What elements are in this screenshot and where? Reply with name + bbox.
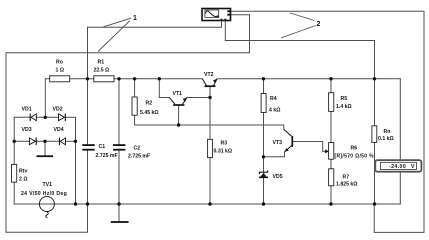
wire scope probe to rail	[88, 21, 222, 79]
wire scope channel B to output node	[225, 21, 374, 79]
wire top edge node1 frame	[6, 15, 250, 233]
resistor R7	[329, 169, 358, 188]
node 2 callout line b	[281, 26, 316, 39]
junction rail / R5 top	[329, 77, 332, 80]
resistor R2	[132, 97, 159, 116]
diode VD2	[53, 107, 66, 122]
wire bridge top row mid	[36, 116, 58, 118]
wire bridge top row right	[65, 116, 75, 118]
resistor R5	[329, 93, 352, 112]
junction bottom rail / ground	[117, 202, 120, 205]
zener diode VD5	[259, 170, 283, 180]
junction bridge right / VD4	[74, 140, 77, 143]
wire R3 bottom	[209, 158, 211, 204]
svg-text:[R]/570 Ω/50 %: [R]/570 Ω/50 %	[335, 154, 375, 160]
svg-text:VT1: VT1	[173, 91, 183, 97]
wire bridge left rail	[13, 117, 15, 164]
junction VT1 emitter / VT2 base	[208, 96, 211, 99]
svg-text:2.725 mF: 2.725 mF	[96, 153, 118, 159]
junction R4 / VD5 / VT3 emitter	[262, 155, 265, 158]
junction bottom rail / bridge right	[74, 202, 77, 205]
diode VD3	[22, 127, 37, 145]
wire VT3 emitter to R4 line	[264, 152, 285, 157]
junction bottom rail / C1 bottom	[86, 202, 89, 205]
svg-text:V: V	[411, 164, 415, 170]
wire voltmeter bottom	[399, 172, 401, 204]
wire VT1 collector drop	[159, 79, 169, 98]
wire bridge top row left	[14, 116, 30, 118]
junction bottom rail / R7 bottom	[329, 202, 332, 205]
svg-text:Rn: Rn	[384, 129, 391, 135]
svg-text:0.31 kΩ: 0.31 kΩ	[214, 149, 233, 155]
callout lines node labels	[98, 13, 316, 52]
diode VD1	[22, 107, 37, 122]
capacitor C1	[82, 144, 117, 159]
resistor Rn	[372, 126, 394, 143]
node 1 callout line b	[98, 21, 130, 52]
wire R6 to R7	[330, 159, 332, 169]
svg-text:1.825 kΩ: 1.825 kΩ	[336, 182, 357, 188]
oscilloscope icon	[202, 9, 231, 21]
junction bridge bottom center / ground	[43, 140, 46, 143]
ac source TV1	[21, 182, 67, 218]
resistor Rtv	[12, 164, 28, 182]
wire R5 branch	[330, 79, 332, 93]
svg-text:1 Ω: 1 Ω	[56, 68, 65, 74]
svg-text:C2: C2	[134, 146, 141, 152]
wire Rn bottom	[374, 142, 376, 204]
svg-text:TV1: TV1	[43, 182, 53, 188]
ground bridge center	[37, 141, 54, 157]
svg-text:VD5: VD5	[273, 174, 283, 180]
svg-text:1.4 kΩ: 1.4 kΩ	[336, 104, 352, 110]
node 2 callout line a	[290, 13, 315, 21]
ground bottom rail	[111, 204, 129, 223]
junction node 1 rail / C1 top	[86, 77, 89, 80]
wire voltmeter top	[399, 79, 401, 161]
svg-text:2 Ω: 2 Ω	[19, 177, 28, 183]
wire R2 bottom to VT1 base line	[135, 115, 179, 125]
svg-text:VT3: VT3	[273, 140, 283, 146]
svg-text:Ro: Ro	[56, 60, 63, 66]
svg-text:R2: R2	[146, 101, 153, 107]
voltmeter	[375, 160, 421, 172]
svg-text:C1: C1	[99, 144, 106, 150]
wire R7 bottom	[330, 186, 332, 204]
svg-text:4 kΩ: 4 kΩ	[269, 107, 280, 113]
wire bridge bottom row right	[66, 140, 76, 142]
wire main rail left of Ro	[45, 79, 49, 118]
wire main rail R1 to VT2	[114, 78, 202, 80]
resistor R3	[208, 139, 232, 157]
resistor R1	[94, 60, 115, 82]
junction bridge top center	[44, 116, 47, 119]
transistor VT3	[273, 129, 293, 152]
svg-text:5.45 kΩ: 5.45 kΩ	[140, 110, 159, 116]
junction rail / C2 top	[117, 77, 120, 80]
transistor VT1	[169, 91, 187, 105]
svg-text:-24.00: -24.00	[389, 164, 406, 170]
svg-text:1: 1	[133, 15, 137, 22]
svg-text:VD3: VD3	[22, 127, 32, 133]
wire bridge right rail	[75, 117, 77, 204]
junction VT1 base / R2 / VT3 collector	[177, 123, 180, 126]
wire R5 to R6	[330, 111, 332, 142]
wire C2 bottom	[118, 151, 120, 204]
svg-text:R3: R3	[221, 141, 228, 147]
wire C1 bottom	[87, 151, 89, 204]
wire R4 bottom to VD5	[263, 113, 265, 172]
resistor Ro	[50, 60, 70, 82]
junction bottom rail / Rn bottom / scope return	[373, 202, 376, 205]
node 1 callout line a	[104, 18, 132, 27]
wire R2 branch	[134, 79, 136, 97]
svg-text:24 V/50 Hz/0 Deg: 24 V/50 Hz/0 Deg	[21, 191, 67, 197]
svg-text:VD1: VD1	[22, 107, 32, 113]
wire C1 branch	[87, 79, 89, 144]
resistor R4	[261, 94, 280, 114]
wire Rn top	[374, 79, 376, 126]
potentiometer R6	[325, 143, 374, 160]
wire bridge bottom row left	[14, 140, 29, 142]
svg-text:0.1 kΩ: 0.1 kΩ	[378, 136, 394, 142]
transistor VT2	[202, 72, 217, 98]
wire VT2 base to R3	[209, 98, 211, 140]
wire VT1 base down	[178, 106, 180, 125]
wire bottom rail	[14, 182, 400, 204]
wire bridge center to ground	[44, 141, 46, 155]
diode VD4	[54, 127, 66, 145]
junction bridge left / VD3	[13, 140, 16, 143]
junction bottom rail / VD5 bottom	[262, 202, 265, 205]
wire C2 branch	[118, 79, 120, 144]
svg-text:VT2: VT2	[204, 72, 214, 78]
wire scope terminal stub right2	[231, 14, 250, 16]
svg-text:R5: R5	[341, 96, 348, 102]
svg-text:R4: R4	[270, 96, 277, 102]
wire main rail VT2 to voltmeter corner	[217, 78, 400, 80]
junction rail / R4 top	[262, 77, 265, 80]
wire R4 branch	[263, 79, 265, 94]
svg-text:2: 2	[317, 21, 321, 28]
svg-text:VD4: VD4	[54, 127, 64, 133]
junction rail / VT1 collector	[158, 77, 161, 80]
wire VT1 base to VT3 collector	[179, 125, 284, 129]
wire bridge bottom row mid	[36, 140, 59, 142]
wire scope ground loop right	[231, 11, 425, 232]
junction node 2 rail / Rn top	[373, 77, 376, 80]
svg-text:R1: R1	[98, 60, 105, 66]
svg-text:R7: R7	[343, 175, 350, 181]
svg-text:VD2: VD2	[53, 107, 63, 113]
junction rail / R2 top	[133, 77, 136, 80]
wire main rail Ro to R1	[70, 78, 94, 80]
svg-text:Rtv: Rtv	[19, 169, 27, 175]
wire VT1 emitter to VT2 base	[187, 97, 210, 99]
wire VD5 bottom	[263, 178, 265, 204]
junction bottom rail / R3 bottom	[208, 202, 211, 205]
svg-text:2.725 mF: 2.725 mF	[128, 154, 150, 160]
wire VT3 base to pot wiper	[292, 142, 325, 152]
svg-text:22.5 Ω: 22.5 Ω	[94, 68, 110, 74]
capacitor C2	[113, 144, 150, 159]
svg-text:R6: R6	[351, 146, 358, 152]
